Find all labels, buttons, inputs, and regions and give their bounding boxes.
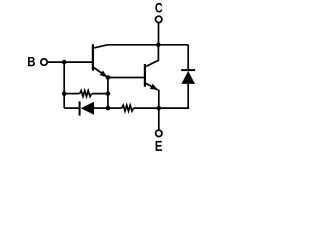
wire top rail	[107, 44, 188, 46]
node B junction	[62, 60, 67, 65]
wire node X down	[107, 78, 109, 109]
diode D2	[181, 71, 195, 84]
diode D1 cathode bar	[79, 101, 81, 115]
wire right rail top	[187, 45, 189, 70]
wire E down	[158, 108, 160, 130]
wire left rail	[63, 62, 65, 108]
terminal circle E	[156, 130, 162, 136]
node E cross junction	[157, 106, 162, 111]
node R1 left	[62, 91, 67, 96]
terminal circle B	[41, 59, 47, 65]
wire R2 branch right	[134, 107, 159, 109]
terminal label C	[155, 3, 162, 13]
wire right rail bottom	[159, 84, 188, 109]
diode D1	[81, 102, 94, 115]
wire D1 to node	[94, 107, 108, 109]
wire B to Q1 base	[48, 61, 92, 63]
wire Q2 emitter down	[158, 90, 160, 109]
terminal label B	[28, 57, 35, 66]
transistor Q1	[92, 44, 94, 70]
transistor Q2	[144, 64, 146, 87]
diode D2 cathode bar	[181, 69, 195, 71]
node X (Q1 emitter / Q2 base)	[106, 75, 111, 80]
wire R1 branch left	[64, 93, 79, 95]
node R1 right	[106, 91, 111, 96]
terminal circle C	[156, 16, 162, 22]
wire node X to Q2 base	[108, 77, 144, 79]
wire R2 branch left	[108, 107, 122, 109]
node D1 right	[106, 106, 111, 111]
node C junction	[156, 43, 161, 48]
terminal label E	[156, 141, 162, 151]
wire C to top rail	[158, 23, 160, 45]
resistor R2	[122, 105, 134, 111]
resistor R1	[80, 91, 92, 97]
wire bottom branch to diode	[64, 107, 79, 109]
wire R1 branch right	[92, 93, 108, 95]
